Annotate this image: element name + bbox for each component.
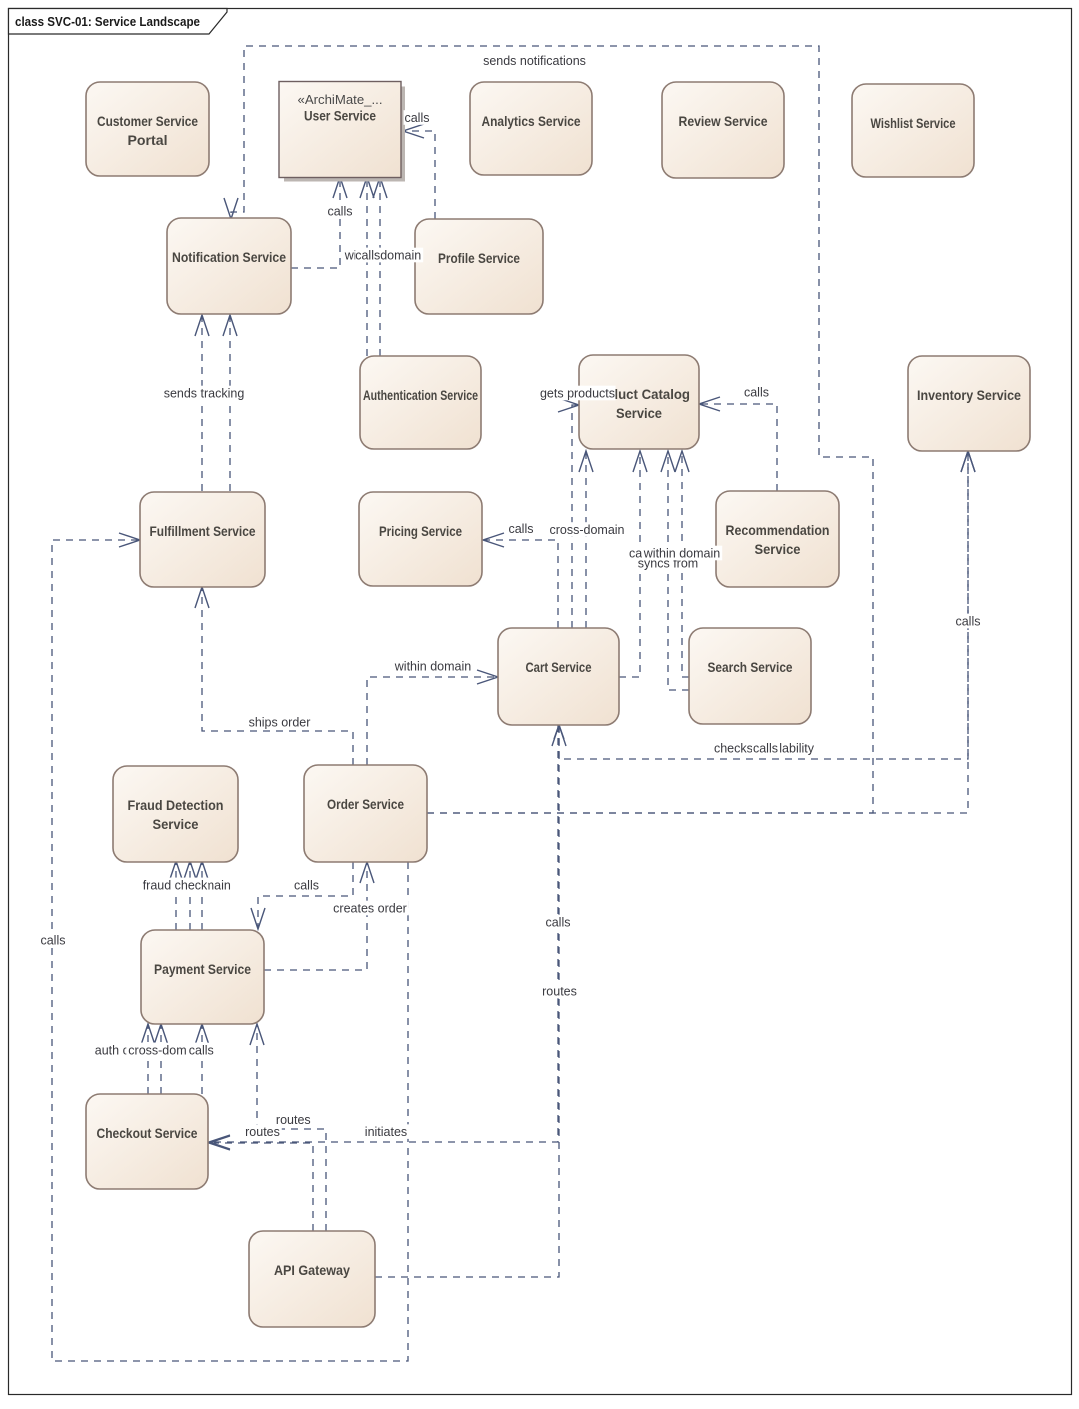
svg-text:Portal: Portal — [128, 132, 168, 148]
svg-text:Review Service: Review Service — [679, 113, 768, 129]
svg-text:calls: calls — [355, 248, 380, 262]
svg-text:cross-domain: cross-domain — [549, 523, 624, 537]
svg-text:Customer Service: Customer Service — [97, 113, 198, 129]
svg-text:calls: calls — [40, 933, 65, 947]
svg-text:calls: calls — [404, 111, 429, 125]
svg-text:ships order: ships order — [249, 715, 311, 729]
svg-text:Fraud Detection: Fraud Detection — [128, 797, 224, 813]
svg-text:calls: calls — [545, 915, 570, 929]
svg-text:calls: calls — [327, 204, 352, 218]
svg-text:Recommendation: Recommendation — [726, 522, 830, 538]
svg-text:API Gateway: API Gateway — [274, 1262, 350, 1278]
svg-text:Inventory Service: Inventory Service — [917, 387, 1021, 403]
svg-text:class SVC-01: Service Landscap: class SVC-01: Service Landscape — [15, 15, 200, 29]
svg-text:Service: Service — [153, 816, 199, 832]
svg-text:calls: calls — [294, 878, 319, 892]
svg-text:Service: Service — [616, 405, 662, 421]
svg-text:Profile Service: Profile Service — [438, 250, 520, 266]
svg-text:creates order: creates order — [333, 901, 407, 915]
svg-text:Analytics Service: Analytics Service — [482, 113, 581, 129]
svg-text:«ArchiMate_...: «ArchiMate_... — [298, 92, 383, 107]
svg-text:Order Service: Order Service — [327, 796, 404, 812]
svg-text:Cart Service: Cart Service — [526, 659, 592, 675]
svg-text:routes: routes — [245, 1125, 280, 1139]
svg-text:gets products: gets products — [540, 386, 615, 400]
svg-text:User Service: User Service — [304, 109, 376, 124]
svg-text:calls: calls — [753, 741, 778, 755]
svg-text:Search Service: Search Service — [708, 659, 793, 675]
svg-text:sends notifications: sends notifications — [483, 54, 586, 68]
svg-text:Pricing Service: Pricing Service — [379, 523, 462, 539]
svg-text:Notification Service: Notification Service — [172, 249, 286, 265]
svg-text:Authentication Service: Authentication Service — [363, 387, 478, 403]
svg-text:routes: routes — [542, 984, 577, 998]
svg-text:Checkout Service: Checkout Service — [97, 1125, 198, 1141]
svg-text:within domain: within domain — [394, 659, 471, 673]
svg-text:Service: Service — [755, 541, 801, 557]
svg-text:Fulfillment Service: Fulfillment Service — [150, 523, 256, 539]
svg-text:calls: calls — [508, 522, 533, 536]
svg-text:Wishlist Service: Wishlist Service — [871, 115, 956, 131]
svg-text:sends tracking: sends tracking — [164, 386, 245, 400]
svg-text:calls: calls — [744, 385, 769, 399]
svg-text:within domain: within domain — [643, 546, 720, 560]
svg-text:calls: calls — [955, 614, 980, 628]
svg-text:fraud check: fraud check — [143, 878, 208, 892]
svg-text:Payment Service: Payment Service — [154, 961, 251, 977]
svg-text:initiates: initiates — [365, 1125, 407, 1139]
svg-text:calls: calls — [189, 1043, 214, 1057]
